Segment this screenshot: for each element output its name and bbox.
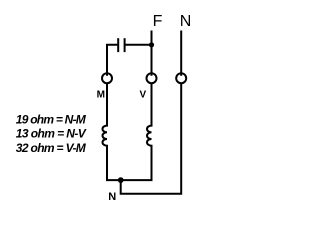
svg-text:13 ohm = N-V: 13 ohm = N-V <box>16 127 87 141</box>
svg-text:32 ohm = V-M: 32 ohm = V-M <box>16 141 87 155</box>
svg-text:V: V <box>140 89 147 100</box>
svg-text:N: N <box>108 191 116 203</box>
svg-text:F: F <box>153 13 163 30</box>
svg-text:N: N <box>180 13 192 30</box>
svg-text:19 ohm = N-M: 19 ohm = N-M <box>16 112 87 126</box>
svg-text:M: M <box>97 89 105 100</box>
